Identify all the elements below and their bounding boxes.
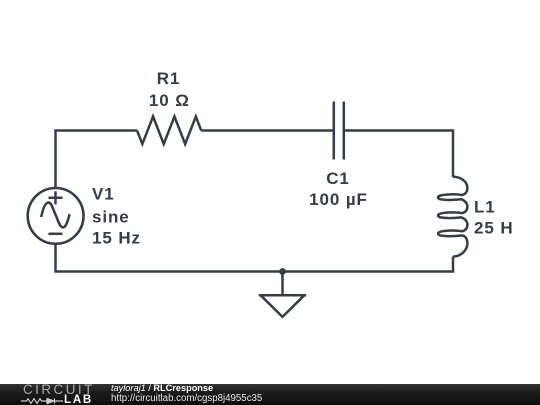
resistor R1: [137, 117, 201, 145]
junction dot at ground node: [279, 268, 286, 275]
value 10 Ohm: [149, 91, 190, 110]
wire from L1 bottom along bottom rail to V1 bottom: [56, 244, 454, 272]
label C1: [326, 169, 350, 188]
svg-text:15 Hz: 15 Hz: [92, 229, 141, 248]
svg-text:sine: sine: [92, 208, 130, 227]
svg-text:100 µF: 100 µF: [309, 190, 368, 209]
label L1: [474, 198, 496, 217]
url text: [111, 393, 262, 404]
attribution text: [111, 384, 213, 393]
svg-text:C1: C1: [326, 169, 350, 188]
footer bar: [0, 384, 540, 405]
svg-text:10 Ω: 10 Ω: [149, 91, 190, 110]
value sine: [92, 208, 130, 227]
value 25 H: [474, 219, 514, 238]
svg-text:V1: V1: [92, 185, 115, 204]
voltage source V1: [28, 188, 84, 244]
wire from R1 right to C1 left plate: [201, 129, 334, 132]
CircuitLab logo text LAB: [64, 394, 93, 405]
inductor L1: [438, 177, 467, 257]
svg-text:R1: R1: [157, 69, 181, 88]
svg-text:25 H: 25 H: [474, 219, 514, 238]
label R1: [157, 69, 181, 88]
CircuitLab logo text CIRCUIT: [23, 382, 95, 397]
label V1: [92, 185, 115, 204]
wire from V1 top to R1 left: [56, 131, 138, 189]
wire from C1 right plate to L1 top: [344, 131, 453, 178]
ground: [259, 295, 306, 317]
svg-text:L1: L1: [474, 198, 496, 217]
value 15 Hz: [92, 229, 141, 248]
ground stub wire: [281, 272, 284, 296]
value 100 uF: [309, 190, 368, 209]
capacitor C1: [334, 102, 344, 160]
CircuitLab logo glyph: wire, resistor zigzag, diode: [21, 398, 64, 404]
